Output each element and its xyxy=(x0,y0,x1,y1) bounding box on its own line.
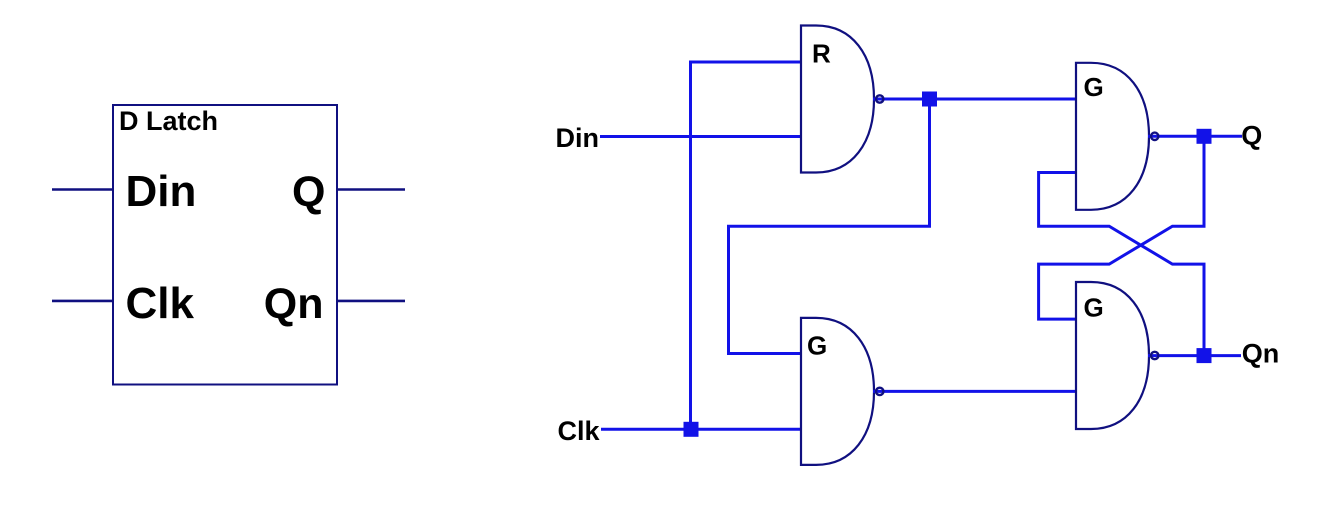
wire Q output to label xyxy=(1148,135,1242,138)
wire Qn output to label xyxy=(1148,354,1241,357)
svg-text:Clk: Clk xyxy=(558,416,601,446)
svg-text:Q: Q xyxy=(1241,121,1262,151)
svg-text:G: G xyxy=(1084,292,1104,322)
svg-text:Qn: Qn xyxy=(264,280,324,328)
svg-text:G: G xyxy=(807,330,827,360)
nand gate R bubble xyxy=(876,95,883,102)
wire Clk riser to R input 1 xyxy=(691,62,802,429)
wire R output branch to gate G1 input 1 xyxy=(729,99,930,354)
svg-text:D Latch: D Latch xyxy=(119,106,218,136)
junction Q node xyxy=(1197,129,1212,144)
svg-text:G: G xyxy=(1084,72,1104,102)
wire block Clk input xyxy=(52,300,113,303)
wire block Qn output xyxy=(337,300,405,303)
nand gate R body xyxy=(801,26,874,173)
junction Qn node xyxy=(1197,348,1212,363)
wire R output to gate G2 input 1 xyxy=(873,98,1076,101)
nand gate G1 bubble backing xyxy=(875,387,884,396)
wire block Q output xyxy=(337,188,405,191)
nand gate G2 body (top right) xyxy=(1076,63,1149,210)
svg-text:Qn: Qn xyxy=(1242,338,1280,368)
junction R output node xyxy=(922,92,937,107)
wire cross feedback Q to G3 input 1 xyxy=(1039,136,1204,319)
nand gate G3 body (bottom right) xyxy=(1076,282,1149,429)
nand gate G2 bubble backing xyxy=(1150,132,1159,141)
svg-text:Din: Din xyxy=(126,167,197,216)
nand gate G1 body (bottom left) xyxy=(801,318,874,465)
junction Clk node xyxy=(684,422,699,437)
wire block Din input xyxy=(52,188,113,191)
D latch block symbol U5 xyxy=(113,105,337,385)
nand gate G1 bubble xyxy=(876,388,883,395)
svg-text:Din: Din xyxy=(556,123,600,153)
svg-text:R: R xyxy=(812,38,831,68)
nand gate G3 bubble xyxy=(1151,352,1158,359)
wire Din to gate R input 2 xyxy=(600,135,801,138)
wire Clk horizontal to gate G1 input 2 xyxy=(601,428,801,431)
svg-text:Q: Q xyxy=(292,168,325,216)
nand gate R bubble backing xyxy=(875,94,884,103)
wire G1 output to gate G3 input 2 xyxy=(873,390,1076,393)
nand gate G2 bubble xyxy=(1151,133,1158,140)
svg-text:Clk: Clk xyxy=(126,279,195,328)
wire cross feedback Qn to G2 input 2 xyxy=(1039,173,1204,356)
nand gate G3 bubble backing xyxy=(1150,351,1159,360)
